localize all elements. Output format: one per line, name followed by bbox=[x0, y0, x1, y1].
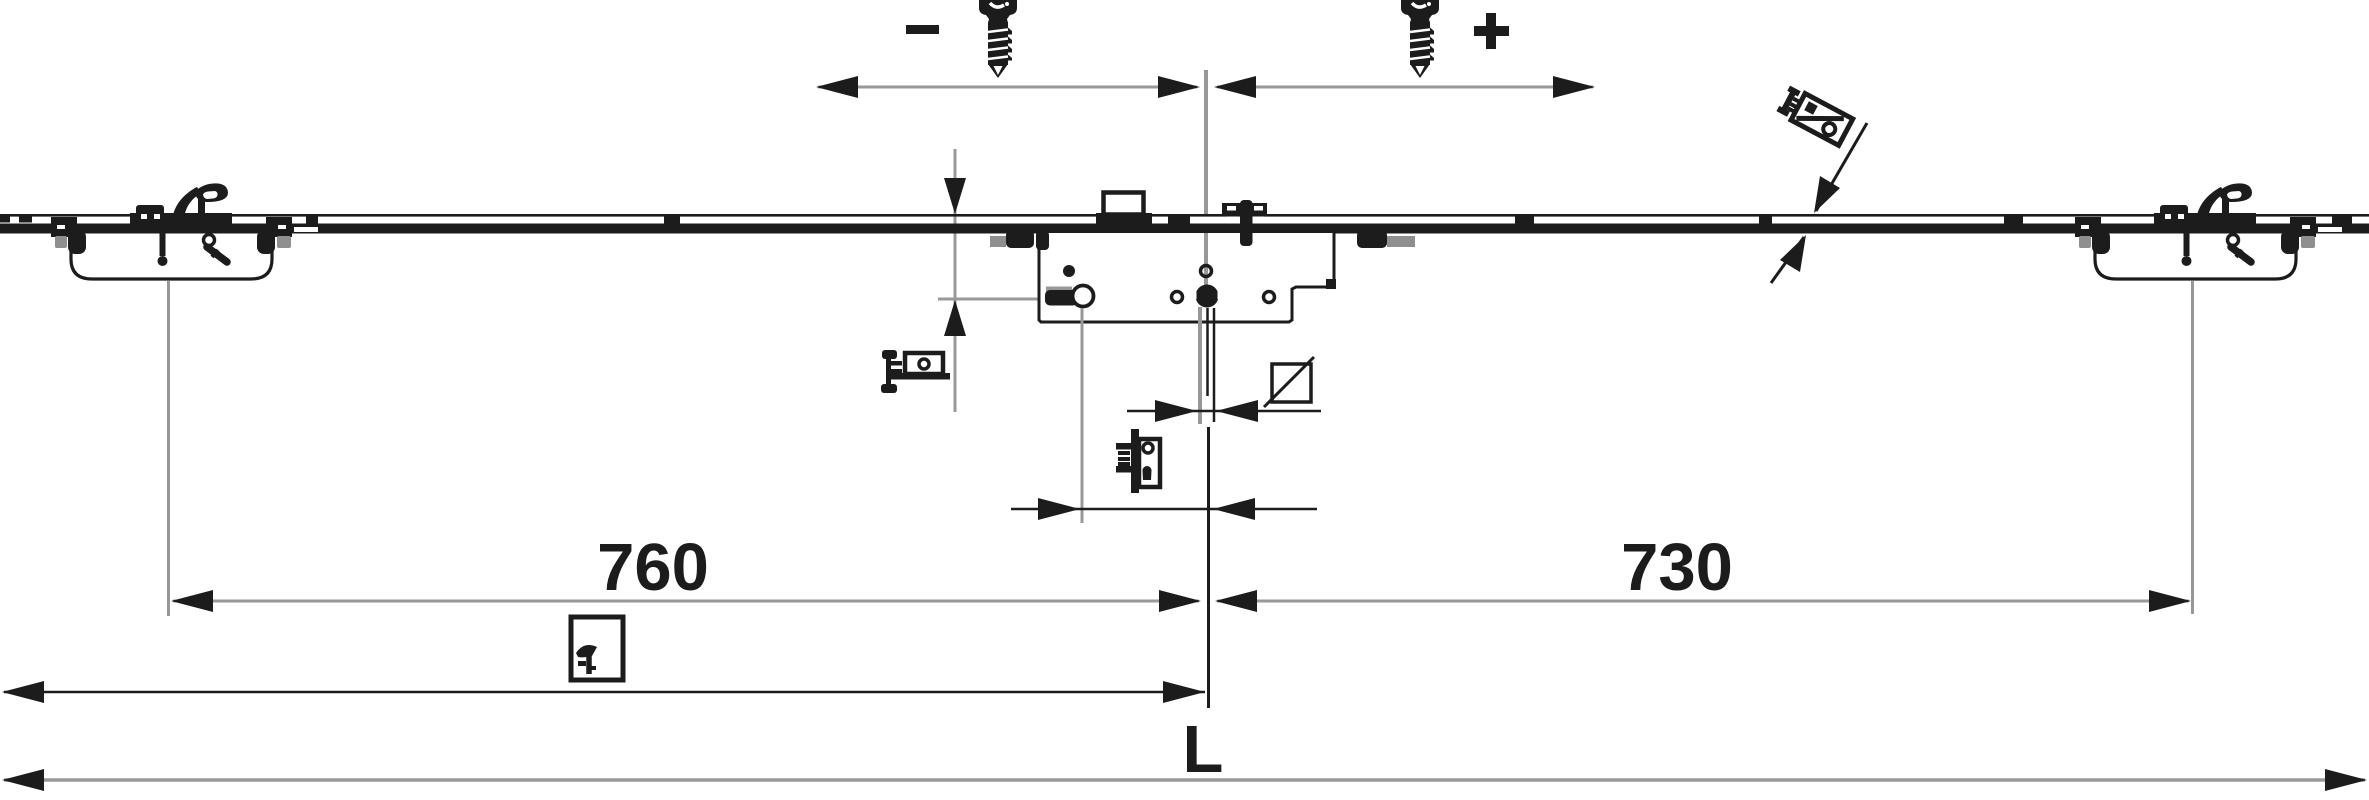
hook right bbox=[2197, 183, 2252, 216]
side clip right of gearbox bbox=[1387, 236, 1415, 247]
hook left bbox=[173, 183, 228, 216]
center line lower bbox=[1207, 427, 1210, 708]
hole upper-left bbox=[1063, 265, 1075, 277]
svg-text:760: 760 bbox=[597, 530, 709, 605]
dark bar patch bbox=[2154, 213, 2256, 233]
clip left bbox=[136, 205, 164, 224]
bar dashes bbox=[0, 217, 2352, 224]
hole right of follower bbox=[1264, 292, 1275, 303]
housing right bbox=[2075, 217, 2316, 279]
gearbox body outline bbox=[1039, 233, 1334, 322]
arrow right outward bbox=[1553, 76, 1595, 98]
screw icon left bbox=[979, 0, 1017, 78]
clip right bbox=[2160, 205, 2188, 224]
tilted profile icon bbox=[1776, 86, 1853, 146]
square spindle symbol bbox=[1272, 364, 1311, 402]
cam extension line bbox=[1081, 308, 1084, 523]
extension line left bbox=[167, 281, 170, 616]
step corner blob bbox=[1326, 279, 1336, 289]
minus sign bbox=[906, 25, 939, 34]
slot in bar near left housing bbox=[294, 227, 318, 232]
slot in bar near right housing bbox=[2318, 227, 2342, 232]
arrow center rightside bbox=[1214, 76, 1256, 98]
svg-text:L: L bbox=[1183, 712, 1224, 787]
top dimension line right half bbox=[1217, 86, 1593, 89]
extension line right bbox=[2191, 281, 2194, 614]
bar body bbox=[0, 224, 2369, 234]
hole upper-center bbox=[1201, 266, 1212, 277]
plus sign bbox=[1474, 13, 1509, 49]
hole left of follower bbox=[1172, 292, 1183, 303]
screw icon right bbox=[1401, 0, 1439, 78]
side clip left of gearbox bbox=[990, 236, 1006, 247]
spindle slot lines bbox=[1206, 308, 1209, 396]
cross plug on bar bbox=[1222, 203, 1267, 215]
housing left bbox=[51, 217, 292, 279]
top dimension line left half bbox=[818, 86, 1197, 89]
spindle follower bbox=[1196, 285, 1219, 308]
svg-text:730: 730 bbox=[1621, 530, 1733, 605]
locking cam capsule bbox=[1046, 287, 1072, 296]
arrow left outward bbox=[816, 76, 858, 98]
center extension line top bbox=[1204, 70, 1208, 214]
dark patch under tab bbox=[1096, 213, 1152, 233]
screw blob gearbox top-left bbox=[1036, 231, 1049, 250]
arrow center leftside bbox=[1158, 76, 1200, 98]
gray axis through gearbox bbox=[1204, 233, 1208, 296]
gray axis below follower bbox=[1198, 307, 1202, 424]
square tab above bar bbox=[1104, 193, 1144, 215]
dark bar patch bbox=[130, 213, 232, 233]
faceplate top line bbox=[0, 214, 2369, 217]
